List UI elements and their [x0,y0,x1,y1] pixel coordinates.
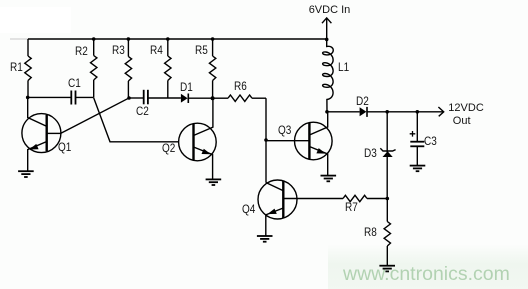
resistor R4 [165,39,171,98]
label R3 [112,46,125,58]
wire Q3 base [266,140,309,142]
node R2 top rail junction [92,37,96,41]
label L1 [338,63,349,75]
label 6VDC In [309,5,351,16]
node L1 / D2 / Q3 collector junction [325,110,329,114]
wire C2 to D1 anode [148,97,181,99]
diode D2 [360,107,367,117]
zener diode D3 [380,112,395,199]
transistor Q4 [258,180,343,236]
node R1 bottom / Q1 collector junction [26,96,30,100]
ground (R8) [379,266,395,272]
node D2 cathode / D3 junction [385,110,389,114]
wire diagonal A: R2/C1 node to Q2 base [94,98,179,142]
ground (Q2 emitter) [206,179,222,185]
ground (Q3 emitter) [321,176,337,182]
label D1 [180,83,193,95]
wire D2 to output arrow [367,111,444,113]
12VDC Out arrow [438,107,443,116]
resistor R6 [213,95,266,101]
resistor R1 [25,39,31,97]
resistor R3 [125,39,131,98]
ghost wire stub [10,38,28,40]
wire L1/Q3 node to D2 [327,111,360,113]
capacitor C2 [144,90,148,105]
node R3 top rail junction [127,37,131,41]
wire R3 bottom node to C2 [129,97,144,99]
node R4 top rail junction [166,37,170,41]
ground (Q4 emitter) [257,236,273,242]
label D3 [364,149,377,161]
inductor L1 [323,39,334,111]
resistor R2 [91,39,97,98]
watermark www.cntronics.com [343,265,510,285]
label C3 [424,137,437,149]
transistor Q2 [179,98,217,179]
label C1 [68,79,81,91]
node 6VDC In / L1 junction [325,38,329,42]
capacitor C1 [71,91,75,105]
6VDC In arrow [322,18,331,40]
label R6 [234,82,247,94]
node R5 top rail junction [211,37,215,41]
background tint bottom-right [328,244,528,289]
label D2 [356,97,369,109]
capacitor C3 [410,112,425,166]
label R7 [345,203,358,215]
ground (C3) [410,166,426,172]
diode D1 [181,94,213,104]
transistor Q1 [22,97,61,170]
node D1 cathode / R5 / R6 / Q2 collector junction [211,96,215,100]
label R1 [10,63,23,75]
transistor Q3 [295,112,333,176]
wire C1 to R2 bottom [76,96,94,98]
label 12VDC Out [448,103,483,114]
resistor R7 [343,195,387,201]
label R2 [75,47,88,59]
label R8 [364,228,377,240]
label Q4 [242,205,255,217]
label Q3 [278,126,291,138]
white patch top-left [0,7,71,33]
resistor R5 [209,39,215,98]
node R3 bottom / C2 / Q1 base junction [127,96,131,100]
label R5 [195,46,208,58]
wire node R1 bottom to C1 [28,96,72,98]
node Q3 base / Q4 collector junction [264,138,268,142]
resistor R8 [384,199,390,266]
wire diagonal B: R3/C2 node to Q1 base [61,98,129,133]
label Q2 [162,144,175,156]
node C3 / output junction [416,110,420,114]
wire top rail [28,38,327,40]
node D3 / R7 / R8 junction [386,197,390,201]
label R4 [150,46,163,58]
label Q1 [58,143,71,155]
wire R6 corner down to Q3 base tee and Q4 collector [265,98,267,182]
label C2 [136,107,149,119]
ground (Q1 emitter) [18,171,34,177]
